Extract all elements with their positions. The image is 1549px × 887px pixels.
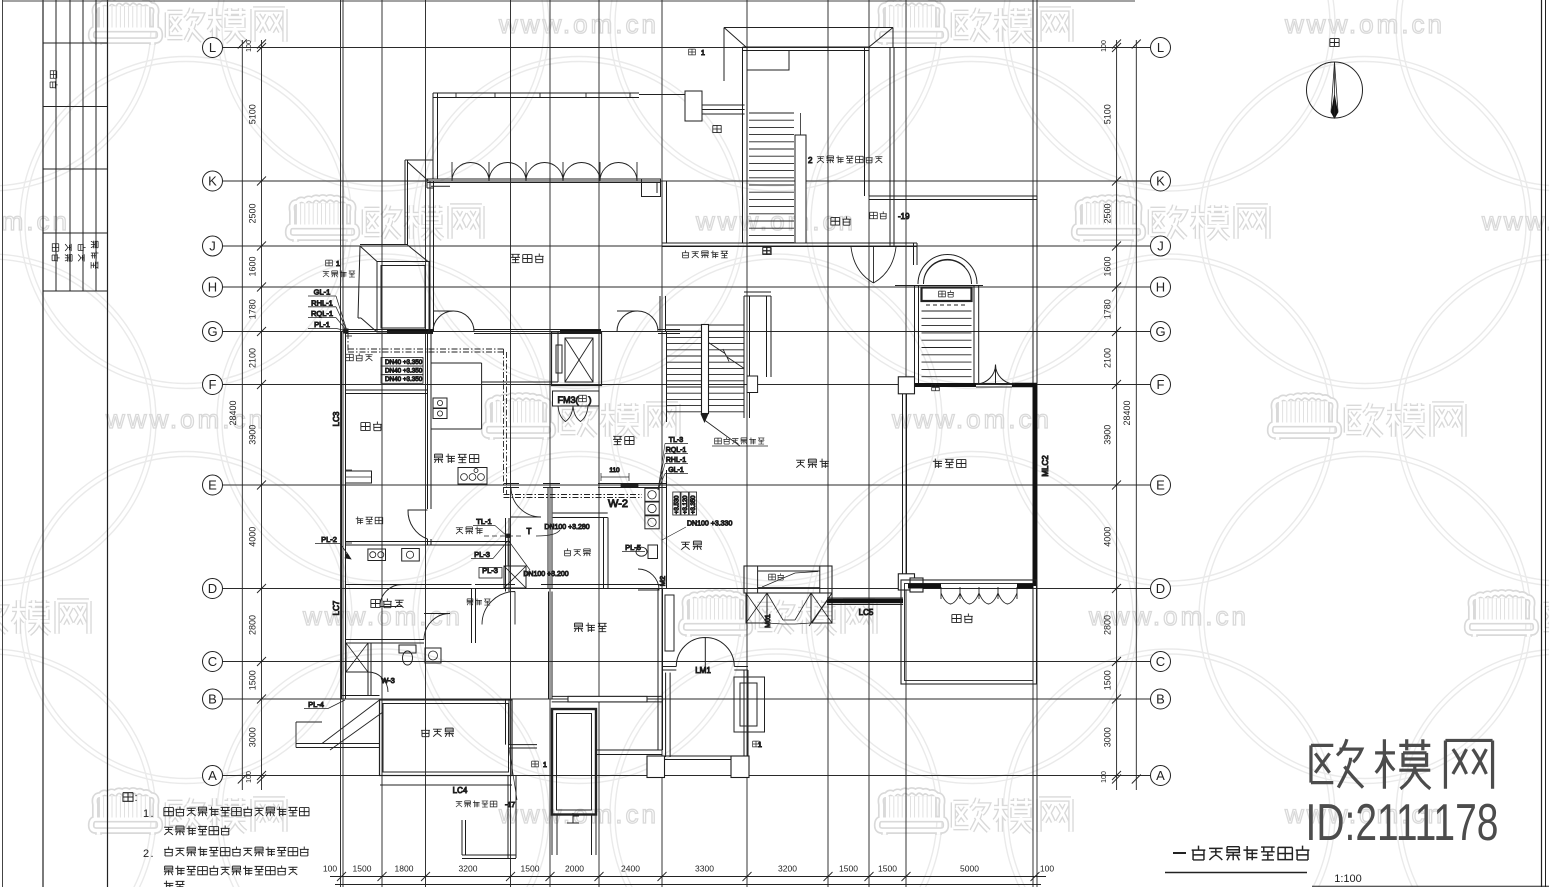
kitchen door arc [408,510,428,539]
svg-text:www.om.cn: www.om.cn [1481,206,1549,236]
double door arcs [851,247,896,283]
D row thick piece [908,584,941,589]
svg-text:5000: 5000 [960,864,979,874]
svg-text:A: A [208,768,217,783]
right dimension chain [1112,40,1141,791]
svg-text:110: 110 [609,467,620,474]
sheet border right [1541,0,1543,887]
stair treads top [749,112,794,114]
svg-text:100: 100 [1101,40,1108,52]
door arc E [511,487,541,517]
north compass [1307,62,1363,118]
svg-text:J: J [1157,239,1164,254]
down label small [932,384,940,390]
platform label [952,613,973,622]
drawing title [1165,872,1307,874]
svg-text:5100: 5100 [1103,104,1113,124]
svg-text:B: B [1156,692,1165,707]
svg-text:J: J [209,239,216,254]
notes [123,793,133,802]
AV east wall [913,243,915,265]
svg-text:LC4: LC4 [453,786,468,795]
svg-text:1800: 1800 [395,864,414,874]
LC5 wall [827,599,903,604]
window sill marks [346,335,353,337]
svg-text:2800: 2800 [248,615,258,635]
big OMW logo [1311,739,1493,789]
arch [918,255,977,284]
svg-text:D: D [1156,581,1165,596]
svg-text:www.om.cn: www.om.cn [0,206,70,236]
svg-text:2000: 2000 [565,864,584,874]
corridor wall x662 [661,332,663,423]
corridor wall lower extension [657,589,659,750]
canopy upper wall [404,160,406,245]
svg-text:2800: 2800 [1103,615,1113,635]
office1 inner door arc [380,585,402,607]
svg-text:ID:2111178: ID:2111178 [1306,794,1499,852]
svg-text:28400: 28400 [1122,400,1132,425]
svg-text:1500: 1500 [839,864,858,874]
corridor door arcs mid [424,614,450,640]
platform rect [901,580,1037,684]
kitchen south wall [346,541,511,543]
vertical grid lines [341,0,1038,887]
svg-text:1780: 1780 [1103,299,1113,319]
main stair shaft [743,296,745,418]
svg-text:1600: 1600 [248,256,258,276]
svg-text:5100: 5100 [248,104,258,124]
foyer label [681,541,702,550]
stove boxes [433,398,447,408]
garden stair treads [922,310,972,312]
column at 906/D [898,574,914,590]
reservoir label [456,800,497,807]
platform edge [869,195,1037,197]
column at 906/F [898,377,914,394]
svg-text:TL-1: TL-1 [476,517,491,526]
platform folding door [941,587,1017,604]
svg-text:DN100 +3.330: DN100 +3.330 [687,521,732,528]
stair treads [666,324,744,326]
left dimension chain [238,40,266,791]
sheet border top [3,0,1136,2]
svg-text:LM1: LM1 [695,666,711,675]
kitchen label [434,454,479,463]
svg-text:H: H [1156,280,1165,295]
storage room [547,487,549,588]
platform label [831,216,851,225]
svg-text:PL-1: PL-1 [314,320,330,329]
svg-text:T: T [527,527,532,536]
rotated elevation boxes [673,492,680,515]
activity room label [933,459,966,468]
svg-text:3200: 3200 [459,864,478,874]
svg-text:28400: 28400 [228,400,238,425]
stair arrow [701,414,708,422]
living room label [796,459,829,468]
svg-text:3300: 3300 [695,864,714,874]
connector lines [702,104,745,106]
axis circles [203,38,1171,786]
svg-text:3000: 3000 [248,727,258,747]
timber label [870,211,887,219]
svg-text::: : [134,792,137,804]
svg-text:1: 1 [336,261,340,268]
FM3 door arcs [558,406,588,422]
activity room thick wall right [1033,383,1038,586]
svg-text:100: 100 [323,864,337,874]
svg-text:MLC2: MLC2 [1041,455,1050,477]
up label [567,813,579,823]
svg-text:www.om.cn: www.om.cn [105,404,266,434]
conference east wall [661,181,663,243]
svg-text:1:100: 1:100 [1334,873,1362,885]
svg-text:A: A [1156,768,1165,783]
equipment labels [326,260,333,266]
conference room label [511,253,544,262]
office mid label [574,623,607,632]
office2 NE jog [505,699,507,745]
svg-text:C: C [1156,654,1165,669]
title block table [43,0,108,291]
svg-text:1780: 1780 [248,299,258,319]
activity west wall [902,394,904,574]
svg-text:F: F [209,377,217,392]
diagonal connector [809,593,832,626]
title block text [50,71,58,89]
fireplace [744,566,832,593]
kitchen west wall [427,332,429,509]
arch spring line [895,285,983,287]
column stub right of stair [747,376,758,393]
AV room label [682,250,728,258]
svg-text:M01: M01 [765,614,772,628]
svg-text:W-3: W-3 [381,676,395,685]
shaft notch [747,50,789,70]
svg-text:1500: 1500 [353,864,372,874]
svg-text:2500: 2500 [248,203,258,223]
door arcs F-row right [976,365,1015,385]
svg-text:2: 2 [143,848,149,860]
rest room south wall [346,389,428,391]
equipment room [377,262,429,333]
svg-text:3200: 3200 [778,864,797,874]
LC4 sill + label [380,784,512,786]
svg-text:2100: 2100 [1103,348,1113,368]
stair leader label [715,437,765,444]
svg-text:): ) [589,395,592,405]
window seat [346,471,372,483]
svg-text:DN100 +3.200: DN100 +3.200 [523,571,568,578]
svg-text:DN40 +3.350: DN40 +3.350 [385,376,423,383]
svg-text:LC3: LC3 [332,411,341,426]
duct dashed run [347,333,349,351]
svg-text:W-2: W-2 [608,498,628,510]
svg-text:1: 1 [143,808,149,820]
svg-text:LC5: LC5 [859,608,874,617]
porch back wall [596,749,662,751]
terrace left wall [432,93,434,179]
svg-text:1: 1 [701,50,705,57]
svg-text:RHL-1: RHL-1 [666,457,686,464]
svg-text:DN40 +3.350: DN40 +3.350 [385,368,423,375]
svg-text:LC7: LC7 [332,600,341,615]
enclosure top edge [724,27,893,29]
upper terrace right wall [889,47,891,246]
svg-text:+3.350: +3.350 [691,495,697,514]
down label2 [763,247,771,253]
svg-text:4000: 4000 [248,527,258,547]
canopy bottom left [296,700,383,750]
svg-text:RQL-1: RQL-1 [666,447,687,454]
svg-text:www.om.cn: www.om.cn [891,404,1052,434]
door arc near M2 [637,568,639,570]
B row wall right [552,695,662,697]
mid-bottom room [665,673,667,757]
svg-text:G: G [207,324,217,339]
svg-text:K: K [208,174,217,189]
svg-text:L: L [1157,40,1164,55]
double door west [433,311,474,332]
garden stair bottom wall [914,383,976,387]
svg-text:.: . [150,848,153,860]
D row wall segments [346,584,472,586]
horizontal axis lines [222,48,1150,776]
activity room thick wall top [1012,383,1037,388]
svg-text:www.om.cn: www.om.cn [1284,9,1445,39]
svg-text:100: 100 [246,40,253,52]
G row wall [346,329,434,331]
down label [713,125,721,132]
sink fixtures [645,488,659,501]
toilet block [346,643,368,672]
porch columns [647,756,665,778]
svg-text:PL-4: PL-4 [308,700,324,709]
corridor window slot [665,595,674,651]
svg-text:G: G [1155,324,1165,339]
svg-text:PL-3: PL-3 [474,550,490,559]
canopy ledge [360,244,408,246]
arch sides [914,286,916,384]
office1 walls [471,588,473,643]
wall stub x766.5 [766,296,768,377]
svg-text:3900: 3900 [1103,425,1113,445]
mitre corners [724,28,746,48]
svg-text:-17: -17 [505,802,515,809]
hot water room label [356,517,383,525]
svg-text:3000: 3000 [1103,727,1113,747]
svg-text:TL-3: TL-3 [669,437,684,444]
window bay right [734,677,765,732]
svg-text:2500: 2500 [1103,203,1113,223]
double door east [617,311,658,332]
stair rail [702,325,709,414]
flower box [922,288,972,302]
svg-text:K: K [1156,174,1165,189]
wc fixtures [399,645,416,653]
svg-text:1: 1 [758,742,762,749]
svg-text:1500: 1500 [1103,670,1113,690]
svg-text:GL-1: GL-1 [668,467,684,474]
LM1 door arcs [676,638,734,667]
bottom dimension chain [330,872,1046,885]
svg-text:+3.120: +3.120 [683,495,689,514]
conference north wall [427,178,660,180]
svg-text:1500: 1500 [878,864,897,874]
svg-text:RQL-1: RQL-1 [311,309,333,318]
AV room north wall [662,242,917,244]
stair shaft walls [742,47,744,243]
corner notch left [427,179,433,188]
E row walls [504,483,519,485]
office2 outer walls [380,700,513,776]
svg-text:100: 100 [1101,771,1108,783]
svg-text:C: C [208,654,217,669]
svg-text:H: H [208,280,217,295]
svg-text:RHL-1: RHL-1 [311,298,333,307]
svg-text:PL-2: PL-2 [321,535,337,544]
scalloped door arcs [452,162,637,181]
sheet border left [2,0,4,887]
svg-text:FM3(: FM3( [558,395,579,405]
steps walkway [556,815,558,856]
elevation boxes [381,358,423,367]
svg-text:E: E [208,478,217,493]
svg-text:F: F [1157,377,1165,392]
svg-text:DN40 +3.350: DN40 +3.350 [385,359,423,366]
svg-text:4000: 4000 [1103,527,1113,547]
svg-text:100: 100 [1040,864,1054,874]
rest room label [346,353,373,361]
svg-text:GL-1: GL-1 [314,288,331,297]
svg-text:1500: 1500 [248,670,258,690]
toilet PL-5 [648,545,658,559]
conference west wall [429,181,431,332]
column box top [685,91,702,121]
svg-text:+3.530: +3.530 [675,495,681,514]
svg-text:1600: 1600 [1103,256,1113,276]
dining label [361,421,382,430]
rest room 2 label [456,527,483,535]
porch corridor [507,776,509,859]
svg-text:www.om.cn: www.om.cn [498,9,659,39]
svg-text:2400: 2400 [621,864,640,874]
left window wall [341,332,343,700]
bay X boxes [746,593,767,623]
svg-text:2: 2 [808,156,813,165]
label zi1 [532,761,539,767]
svg-text:2100: 2100 [248,348,258,368]
svg-text:3900: 3900 [248,425,258,445]
svg-text:1500: 1500 [521,864,540,874]
FM3 box [553,391,600,406]
hall label [613,436,634,444]
svg-text:DN100 +3.280: DN100 +3.280 [544,524,589,531]
cooktop [458,468,487,485]
svg-text:PL-5: PL-5 [625,543,641,552]
sink boxes [368,549,386,561]
office-mid west wall [548,592,550,700]
stair break line [709,343,744,369]
svg-text:B: B [208,692,217,707]
shower room label [467,598,491,605]
svg-text:L: L [209,40,216,55]
M2 door + arc [638,569,659,590]
elevator shaft [552,332,602,386]
stair stringer [795,135,806,243]
kitchen counters [431,332,558,429]
entry steps [552,709,596,815]
shower west wall [505,518,507,592]
corner notch right [1009,482,1011,484]
svg-text:D: D [208,581,217,596]
svg-text:1: 1 [543,762,547,769]
small label theta1 [689,49,696,55]
B row wall [342,695,380,697]
svg-text:100: 100 [246,771,253,783]
terrace top wall [433,92,639,94]
svg-text:E: E [1156,478,1165,493]
svg-text:.: . [150,808,153,820]
svg-text:-19: -19 [898,212,910,221]
